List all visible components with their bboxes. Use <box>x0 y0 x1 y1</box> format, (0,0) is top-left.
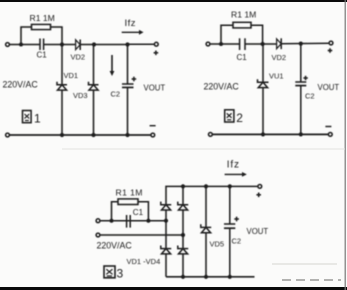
label Ifz (fig.3) <box>227 159 240 170</box>
svg-text:Ifz: Ifz <box>125 18 137 29</box>
svg-text:VD1: VD1 <box>64 71 79 80</box>
plus mark C2 (fig.1) <box>132 77 137 82</box>
wire <box>93 90 95 135</box>
svg-text:2: 2 <box>236 111 243 125</box>
terminal bottom-right (fig.1) <box>151 133 155 137</box>
label C2 (fig.1) <box>111 90 121 99</box>
capacitor C2 electrolytic (fig.2) <box>295 82 306 86</box>
label R1 1M (fig.1) <box>30 13 55 23</box>
current arrow I (fig.1) <box>110 55 115 76</box>
wire <box>165 210 167 249</box>
node rail VU1 (fig.2) <box>261 132 265 136</box>
label VOUT (fig.2) <box>318 83 340 92</box>
wire <box>251 25 263 44</box>
terminal input wire2 (fig.3) <box>96 233 100 237</box>
svg-text:VOUT: VOUT <box>318 83 340 92</box>
label R1 1M (fig.3) <box>116 187 143 197</box>
terminal bottom-right (fig.2) <box>328 133 332 137</box>
label C2 (fig.2) <box>305 92 315 101</box>
label VD2 (fig.1) <box>71 53 86 62</box>
wire <box>165 254 167 277</box>
svg-text:VOUT: VOUT <box>144 84 166 93</box>
label 220V/AC (fig.3) <box>97 240 133 250</box>
resistor R1 (fig.1) <box>32 24 51 29</box>
minus mark (fig.2) <box>325 126 331 128</box>
label VD2 (fig.2) <box>272 53 287 62</box>
figure label 图2 <box>225 110 244 125</box>
capacitor C2 electrolytic (fig.1) <box>122 84 134 87</box>
wire <box>21 27 32 45</box>
wire <box>182 186 184 204</box>
wire <box>205 233 207 277</box>
svg-text:C1: C1 <box>133 208 144 217</box>
bridge diode VD2 (fig.3 right top) <box>178 202 188 210</box>
svg-text:VD2: VD2 <box>272 53 287 62</box>
wire <box>51 27 63 45</box>
node rail bottom D2col (fig.3) <box>181 275 185 279</box>
wire <box>205 186 207 227</box>
node rail C2 (fig.2) <box>299 132 303 136</box>
wire <box>245 43 277 45</box>
wire <box>93 45 95 85</box>
top rail (fig.3) <box>166 186 258 204</box>
wire <box>44 44 76 46</box>
terminal output plus (fig.3) <box>258 185 262 189</box>
node B1 <box>60 42 64 46</box>
label VOUT (fig.3) <box>247 227 269 236</box>
label VU1 (fig.2) <box>269 72 284 81</box>
wire <box>300 86 302 135</box>
wire <box>281 42 329 45</box>
wire <box>229 186 231 224</box>
wire <box>127 45 129 85</box>
label VD5 (fig.3) <box>210 240 225 249</box>
terminal output plus (fig.1) <box>154 42 158 46</box>
wire <box>61 45 63 85</box>
diode VD2 (fig.2) <box>277 38 282 49</box>
label VD3 (fig.1) <box>73 91 88 100</box>
capacitor C1 (fig.2) <box>240 38 245 50</box>
svg-text:C2: C2 <box>305 92 315 101</box>
node rail bottom C2 (fig.3) <box>228 275 232 279</box>
terminal input wire1 (fig.3) <box>96 219 100 223</box>
svg-text:VU1: VU1 <box>269 72 284 81</box>
svg-text:VD5: VD5 <box>210 240 225 249</box>
label C1 (fig.3) <box>133 208 144 217</box>
label C1 (fig.1) <box>37 51 48 60</box>
wire <box>182 254 184 277</box>
zener diode VD3 (fig.1) <box>89 82 99 90</box>
node B2 <box>261 42 265 46</box>
node rail top C2 (fig.3) <box>228 184 232 188</box>
node rail VD3 (fig.1) <box>91 133 95 137</box>
svg-text:Ifz: Ifz <box>227 159 240 170</box>
node A1 <box>19 43 23 47</box>
svg-text:VD2: VD2 <box>71 53 86 62</box>
capacitor C1 (fig.3) <box>127 215 131 228</box>
label Ifz (fig.1) <box>125 18 137 29</box>
node D1 <box>125 42 129 46</box>
plus mark output (fig.1) <box>154 51 159 56</box>
svg-text:VD1 -VD4: VD1 -VD4 <box>127 257 161 266</box>
terminal output plus (fig.2) <box>329 41 333 45</box>
resistor R1 (fig.2) <box>233 22 251 28</box>
wire <box>138 202 148 221</box>
bottom rail (fig.2) <box>212 133 328 135</box>
node input right column (fig.3) <box>181 233 185 237</box>
wire <box>221 25 233 44</box>
minus mark (fig.1) <box>150 125 156 127</box>
node C1n <box>92 42 96 46</box>
figure label 图3 <box>104 266 124 281</box>
node A2 <box>219 42 223 46</box>
node R1 left (fig.3) <box>110 219 114 223</box>
zener diode VD5 (fig.3) <box>201 224 211 232</box>
node rail top VD5 (fig.3) <box>204 184 208 188</box>
plus mark C2 (fig.3) <box>234 217 239 222</box>
node C2n <box>299 42 303 46</box>
wire <box>262 44 264 82</box>
plus mark output (fig.3) <box>256 193 261 198</box>
terminal bottom-left (fig.2) <box>209 133 213 137</box>
node input left column (fig.3) <box>164 219 168 223</box>
terminal input top (fig.1) <box>6 43 10 47</box>
svg-text:R1 1M: R1 1M <box>231 9 256 19</box>
zener diode VU1 (fig.2) <box>258 79 269 87</box>
wire <box>61 90 63 135</box>
svg-text:C2: C2 <box>232 237 242 246</box>
wire <box>128 43 155 45</box>
svg-text:3: 3 <box>117 267 124 281</box>
wire <box>80 44 127 46</box>
node rail bottom VD5 (fig.3) <box>204 275 208 279</box>
svg-text:220V/AC: 220V/AC <box>204 82 240 92</box>
bridge diode VD4 (fig.3 right bottom) <box>178 246 188 254</box>
svg-text:R1 1M: R1 1M <box>30 13 55 23</box>
resistor R1 (fig.3) <box>118 199 138 205</box>
current arrow Ifz (fig.1) <box>122 30 144 35</box>
bridge diode VD1 (fig.3 left top) <box>161 202 171 210</box>
svg-text:VOUT: VOUT <box>247 227 269 236</box>
figure label 图1 <box>23 111 42 126</box>
svg-text:R1 1M: R1 1M <box>116 187 143 197</box>
node rail VD1 (fig.1) <box>60 133 64 137</box>
bridge diode VD3 (fig.3 left bottom) <box>161 246 171 254</box>
wire <box>9 44 39 46</box>
svg-text:C1: C1 <box>37 51 48 60</box>
capacitor C1 (fig.1) <box>40 39 44 51</box>
svg-text:VD3: VD3 <box>73 91 88 100</box>
bottom rail (fig.1) <box>9 134 151 136</box>
node R1 right (fig.3) <box>146 219 150 223</box>
wire <box>100 220 166 222</box>
zener diode VD1 (fig.1) <box>57 82 67 90</box>
svg-text:220V/AC: 220V/AC <box>3 80 39 90</box>
current arrow Ifz (fig.3) <box>225 172 247 177</box>
terminal bottom-left (fig.1) <box>6 133 10 137</box>
wire <box>300 44 302 82</box>
wire <box>210 43 240 45</box>
wire <box>229 228 231 277</box>
diode VD2 (fig.1) <box>76 40 81 51</box>
plus mark C2 (fig.2) <box>303 76 307 80</box>
svg-text:C1: C1 <box>237 53 248 62</box>
node rail C2 (fig.1) <box>125 133 129 137</box>
node rail top D2col (fig.3) <box>181 184 185 188</box>
wire <box>262 88 264 135</box>
terminal input top (fig.2) <box>206 42 210 46</box>
svg-text:220V/AC: 220V/AC <box>97 240 133 250</box>
label C1 (fig.2) <box>237 53 248 62</box>
label C2 (fig.3) <box>232 237 242 246</box>
wire <box>112 202 119 221</box>
svg-text:C2: C2 <box>111 90 121 99</box>
bottom rail (fig.3) <box>166 276 255 278</box>
label VD1 -VD4 (fig.3) <box>127 257 161 266</box>
label R1 1M (fig.2) <box>231 9 256 19</box>
wire <box>127 87 129 135</box>
label 220V/AC (fig.2) <box>204 82 240 92</box>
capacitor C2 electrolytic (fig.3) <box>224 224 235 228</box>
svg-text:1: 1 <box>34 112 41 126</box>
wire <box>100 234 183 236</box>
label VD1 (fig.1) <box>64 71 79 80</box>
label 220V/AC (fig.1) <box>3 80 39 90</box>
plus mark output (fig.2) <box>328 48 333 53</box>
label VOUT (fig.1) <box>144 84 166 93</box>
wire <box>182 210 184 249</box>
